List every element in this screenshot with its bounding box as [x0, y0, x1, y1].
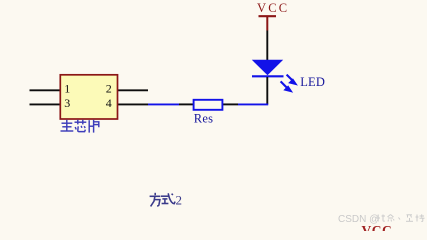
、 [399, 218, 401, 220]
svg-text:Res: Res [194, 111, 213, 125]
wire: corner to resistor (blue) [238, 103, 268, 105]
pin 3 [30, 103, 61, 105]
svg-text:1: 1 [64, 82, 70, 96]
svg-text:4: 4 [106, 96, 112, 110]
执 [377, 214, 425, 221]
svg-text:2: 2 [176, 193, 183, 208]
pin 1 [30, 89, 61, 91]
emission arrow 1 [281, 75, 297, 92]
pin 2 [117, 89, 148, 91]
svg-text:2: 2 [106, 82, 112, 96]
wire: VCC to LED anode (pin) [266, 31, 268, 61]
坚 [407, 214, 413, 216]
LED D1 [252, 60, 325, 92]
emission arrow 2 [281, 81, 287, 87]
watermark CSDN @执念、坚持 [338, 214, 425, 225]
wire: LED cathode pin down [266, 77, 268, 104]
片 [89, 120, 99, 133]
持 [416, 216, 419, 218]
主 [61, 120, 74, 131]
chip U1 主芯片 [30, 75, 149, 119]
念 [388, 215, 394, 218]
resistor Res [179, 100, 238, 126]
svg-text:VCC: VCC [362, 223, 393, 231]
svg-text:LED: LED [300, 75, 325, 89]
方 [150, 193, 161, 207]
caption 方式2 (drawn strokes + digit) [150, 193, 176, 207]
svg-text:VCC: VCC [257, 1, 289, 15]
svg-text:3: 3 [64, 96, 70, 110]
wire: resistor to chip pin4 (blue) [148, 103, 179, 105]
式 [161, 193, 175, 203]
label 主芯片 (drawn strokes) [61, 120, 99, 133]
pin 4 [117, 103, 148, 105]
body [60, 75, 117, 119]
power port VCC [257, 1, 289, 30]
芯 [75, 120, 87, 132]
